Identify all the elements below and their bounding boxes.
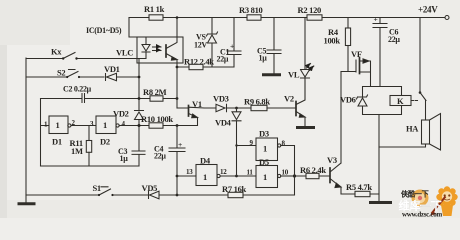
svg-text:R9 6.8k: R9 6.8k bbox=[244, 97, 270, 107]
svg-text:R6 2.4k: R6 2.4k bbox=[300, 165, 326, 175]
transistor V1 bbox=[188, 106, 190, 117]
wire: R7 to feedback node bbox=[243, 194, 295, 196]
wire: D3 output down to D5 output node bbox=[281, 146, 295, 196]
ground: right bbox=[371, 201, 391, 204]
svg-text:C2 0.22μ: C2 0.22μ bbox=[63, 85, 92, 94]
svg-text:VD3: VD3 bbox=[213, 94, 229, 104]
transistor: optocoupler phototransistor bbox=[165, 45, 167, 57]
svg-text:12V: 12V bbox=[194, 41, 207, 50]
svg-text:VLC: VLC bbox=[116, 48, 133, 58]
svg-text:+24V: +24V bbox=[418, 5, 438, 15]
svg-text:www.dzsc.com: www.dzsc.com bbox=[402, 211, 442, 219]
capacitor C5 bbox=[267, 18, 281, 74]
wire: D2 output row to V1 emitter bbox=[119, 125, 197, 127]
capacitor C3 bbox=[132, 126, 145, 167]
wire: R9 to V2 base bbox=[267, 107, 296, 109]
ground: below C5 bbox=[264, 73, 280, 76]
diode VD3 bbox=[204, 104, 251, 111]
resistor R9 bbox=[251, 105, 267, 110]
diode VD1 bbox=[106, 73, 140, 81]
wire: optocoupler coupling arrows bbox=[153, 46, 162, 48]
svg-text:VD2: VD2 bbox=[113, 109, 129, 119]
wire: node row y=99 feeding R8 and D1 bbox=[41, 98, 178, 100]
gate D4 bbox=[177, 175, 196, 177]
resistor R12 bbox=[189, 64, 203, 69]
svg-text:D5: D5 bbox=[259, 157, 269, 167]
svg-text:V3: V3 bbox=[327, 155, 337, 165]
svg-text:IC(D1~D5): IC(D1~D5) bbox=[86, 26, 122, 35]
LED VL bbox=[301, 18, 310, 101]
zener diode VS bbox=[207, 18, 218, 68]
svg-text:1μ: 1μ bbox=[120, 154, 129, 163]
resistor R3 bbox=[247, 15, 261, 20]
wire: R1 left lead down to optocoupler box bbox=[129, 18, 149, 38]
svg-text:1: 1 bbox=[263, 172, 267, 182]
svg-text:S1: S1 bbox=[93, 183, 101, 193]
capacitor C6 bbox=[373, 18, 387, 87]
wire: +24V top supply rail bbox=[129, 17, 445, 19]
svg-text:俠酷一下: 俠酷一下 bbox=[400, 190, 429, 199]
watermark mascots bbox=[400, 186, 458, 216]
wire: D4 out to D5 in bbox=[220, 175, 256, 177]
resistor R2 bbox=[307, 15, 322, 20]
zener diode VD6 bbox=[357, 95, 368, 106]
svg-text:VD4: VD4 bbox=[215, 118, 232, 128]
svg-text:1: 1 bbox=[56, 120, 60, 130]
wire: V3 collector vertical to VF gate bbox=[340, 72, 342, 164]
transistor V3 bbox=[329, 168, 331, 183]
diode: optocoupler internal LED bbox=[137, 37, 150, 59]
svg-text:R8 2M: R8 2M bbox=[143, 87, 167, 97]
resistor R1 bbox=[149, 15, 163, 20]
wire: vertical node line through VD2 bbox=[138, 59, 140, 126]
svg-text:R12 2.4k: R12 2.4k bbox=[184, 57, 214, 67]
svg-text:R3 810: R3 810 bbox=[239, 5, 263, 15]
svg-text:100k: 100k bbox=[324, 36, 341, 46]
diode VD4 bbox=[232, 108, 241, 176]
svg-text:22μ: 22μ bbox=[154, 152, 166, 161]
svg-text:R7 16k: R7 16k bbox=[222, 184, 247, 194]
resistor R8 bbox=[150, 96, 163, 101]
svg-text:R10 100k: R10 100k bbox=[141, 114, 173, 124]
transistor V2 bbox=[295, 102, 297, 116]
svg-text:1: 1 bbox=[103, 120, 107, 130]
diode VD2 bbox=[135, 111, 144, 120]
svg-text:HA: HA bbox=[406, 124, 419, 134]
wire: D1 left feed vertical bbox=[41, 99, 50, 167]
svg-text:VD1: VD1 bbox=[104, 64, 120, 74]
diode VD5 bbox=[149, 191, 229, 199]
resistor R11 bbox=[88, 126, 90, 167]
switch Kx bbox=[26, 53, 137, 59]
node: +24V terminal bbox=[445, 16, 449, 20]
wire: bottom rail bbox=[26, 194, 149, 196]
switch S2 bbox=[26, 70, 104, 78]
svg-text:R2 120: R2 120 bbox=[298, 5, 322, 15]
capacitor C2 bbox=[82, 94, 85, 103]
svg-text:VD5: VD5 bbox=[142, 183, 158, 193]
op-amp U1: optocoupler VLC box bbox=[137, 37, 183, 63]
svg-text:VD6: VD6 bbox=[340, 95, 356, 105]
svg-text:22μ: 22μ bbox=[388, 35, 400, 44]
svg-text:11: 11 bbox=[247, 169, 254, 177]
svg-text:1μ: 1μ bbox=[259, 54, 268, 63]
svg-text:+: + bbox=[230, 42, 234, 51]
node: junction dots bbox=[138, 16, 422, 196]
wire: relay/VD6 loop bbox=[363, 87, 402, 115]
wire: left vertical rail bbox=[25, 58, 27, 195]
wire: HA bottom to ground vertical bbox=[379, 144, 426, 147]
svg-text:V2: V2 bbox=[284, 94, 294, 104]
svg-text:13: 13 bbox=[186, 168, 193, 176]
ground: V2 emitter bbox=[298, 126, 314, 129]
svg-text:+: + bbox=[374, 15, 378, 24]
svg-text:K: K bbox=[397, 96, 404, 106]
wire: D1 out to D2 in bbox=[71, 125, 96, 127]
wire: VD4 node to D3 input bbox=[237, 145, 257, 147]
svg-text:12: 12 bbox=[220, 168, 227, 176]
svg-text:D1: D1 bbox=[52, 137, 62, 147]
svg-text:Kx: Kx bbox=[51, 47, 62, 57]
svg-text:R5 4.7k: R5 4.7k bbox=[346, 182, 372, 192]
resistor R10 bbox=[149, 123, 163, 128]
node: switch contact dots bbox=[62, 57, 114, 196]
svg-text:1: 1 bbox=[203, 172, 207, 182]
svg-text:S2: S2 bbox=[57, 68, 65, 78]
wire: emitter/base vertical of V1 bbox=[176, 67, 178, 108]
wire: R12 row to VS and C1 bbox=[177, 66, 234, 68]
switch S1 bbox=[99, 187, 111, 195]
svg-text:1M: 1M bbox=[71, 146, 83, 156]
gate D1 bbox=[49, 116, 68, 134]
resistor R7 bbox=[228, 192, 243, 197]
svg-text:D4: D4 bbox=[200, 156, 211, 166]
capacitor C4 bbox=[169, 126, 185, 196]
svg-text:R1 1k: R1 1k bbox=[144, 4, 165, 14]
svg-text:D2: D2 bbox=[100, 137, 110, 147]
svg-text:+: + bbox=[178, 140, 182, 149]
capacitor C1 bbox=[227, 18, 241, 68]
gate D5 bbox=[256, 166, 278, 188]
ground: bottom left bbox=[25, 195, 27, 203]
resistor R4 (vertical) bbox=[347, 18, 349, 72]
wire: D5 out to node bbox=[281, 175, 295, 177]
resistor R6 bbox=[295, 175, 331, 177]
svg-text:10: 10 bbox=[282, 169, 289, 177]
resistor R5 bbox=[341, 193, 379, 195]
gate D3 bbox=[256, 138, 278, 161]
wire: ground vertical right bbox=[378, 115, 380, 202]
speaker HA bbox=[422, 120, 430, 144]
svg-text:22μ: 22μ bbox=[217, 55, 229, 64]
svg-text:V1: V1 bbox=[192, 99, 202, 109]
wire: gates bottom bus bbox=[41, 165, 140, 167]
relay coil K bbox=[390, 96, 411, 106]
wire: relay mechanical link bbox=[411, 100, 418, 102]
svg-text:D3: D3 bbox=[259, 129, 269, 139]
switch: relay contact K bbox=[420, 18, 426, 121]
gate D2 bbox=[96, 116, 116, 134]
svg-text:1: 1 bbox=[263, 144, 267, 154]
svg-text:VL: VL bbox=[288, 70, 300, 80]
